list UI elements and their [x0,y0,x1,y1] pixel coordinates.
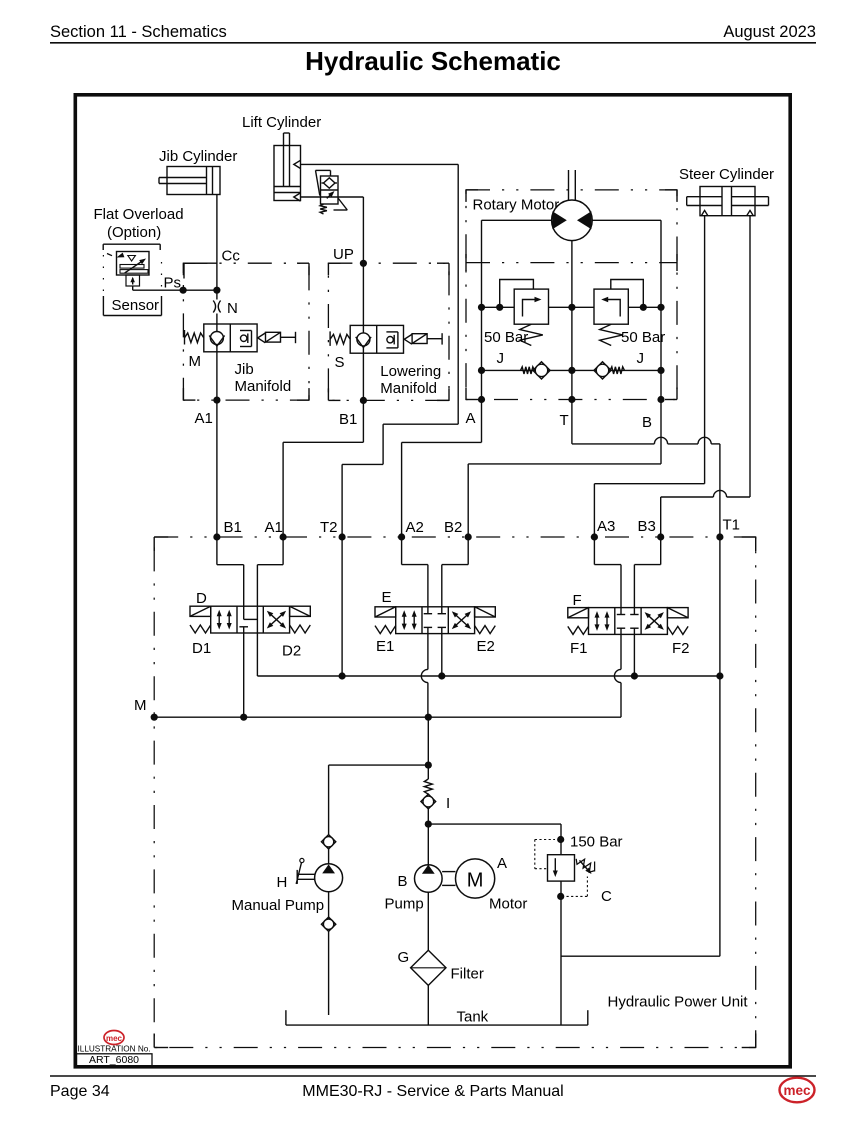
svg-text:N: N [227,300,238,317]
svg-text:50 Bar: 50 Bar [484,329,528,346]
svg-text:J: J [637,350,645,367]
svg-text:M: M [134,697,147,714]
svg-text:A1: A1 [265,519,283,536]
svg-text:A: A [466,410,476,427]
svg-text:Manifold: Manifold [380,380,437,397]
svg-text:Jib: Jib [235,361,254,378]
svg-text:B: B [642,414,652,431]
svg-text:B3: B3 [638,518,656,535]
svg-text:Manual Pump: Manual Pump [232,897,325,914]
svg-text:B1: B1 [339,411,357,428]
svg-text:B2: B2 [444,519,462,536]
svg-text:B1: B1 [224,519,242,536]
svg-text:E1: E1 [376,638,394,655]
svg-text:F2: F2 [672,640,690,657]
svg-text:mec: mec [106,1034,123,1043]
svg-text:Page 34: Page 34 [50,1083,110,1100]
svg-text:Ps: Ps [164,275,182,292]
svg-text:D1: D1 [192,640,211,657]
svg-text:Steer Cylinder: Steer Cylinder [679,166,774,183]
svg-text:E: E [382,589,392,606]
svg-text:Lift Cylinder: Lift Cylinder [242,114,321,131]
svg-text:A1: A1 [195,410,213,427]
svg-text:D2: D2 [282,643,301,660]
svg-text:H: H [277,874,288,891]
svg-text:Jib Cylinder: Jib Cylinder [159,148,237,165]
svg-text:T2: T2 [320,519,338,536]
svg-text:Manifold: Manifold [235,378,292,395]
svg-text:J: J [497,350,505,367]
svg-text:A: A [497,855,507,872]
svg-text:Flat Overload: Flat Overload [94,206,184,223]
svg-text:August 2023: August 2023 [723,23,816,41]
svg-text:Section 11 - Schematics: Section 11 - Schematics [50,23,227,41]
svg-text:B: B [398,873,408,890]
svg-text:A2: A2 [406,519,424,536]
svg-text:A3: A3 [597,518,615,535]
svg-text:C: C [601,888,612,905]
svg-text:Hydraulic Power Unit: Hydraulic Power Unit [608,994,749,1011]
svg-text:ILLUSTRATION No.: ILLUSTRATION No. [78,1045,151,1054]
svg-text:Pump: Pump [385,896,424,913]
svg-text:(Option): (Option) [107,224,161,241]
svg-text:Cc: Cc [222,248,241,265]
svg-text:D: D [196,590,207,607]
svg-text:F: F [573,592,582,609]
svg-text:S: S [335,354,345,371]
svg-text:G: G [398,949,410,966]
svg-text:M: M [467,870,484,892]
svg-text:Rotary Motor: Rotary Motor [473,197,560,214]
svg-text:ART_6080: ART_6080 [89,1054,139,1066]
svg-text:Sensor: Sensor [112,297,160,314]
svg-text:Hydraulic Schematic: Hydraulic Schematic [305,46,561,76]
svg-text:F1: F1 [570,640,588,657]
svg-text:mec: mec [783,1083,811,1098]
svg-text:UP: UP [333,246,354,263]
svg-text:Motor: Motor [489,896,527,913]
svg-text:Filter: Filter [451,966,484,983]
svg-text:MME30-RJ - Service & Parts Man: MME30-RJ - Service & Parts Manual [302,1083,563,1100]
svg-text:T1: T1 [723,517,741,534]
svg-text:150 Bar: 150 Bar [570,834,623,851]
svg-text:I: I [446,795,450,812]
svg-text:E2: E2 [477,638,495,655]
svg-text:Tank: Tank [457,1009,489,1026]
svg-text:T: T [560,412,569,429]
svg-text:Lowering: Lowering [380,363,441,380]
svg-text:M: M [189,353,202,370]
svg-text:50 Bar: 50 Bar [621,329,665,346]
